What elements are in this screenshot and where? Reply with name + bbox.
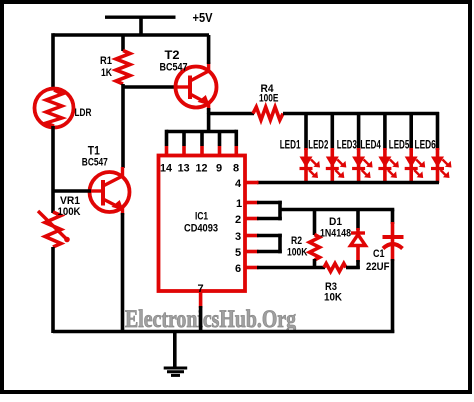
pin 9 stub — [218, 132, 222, 147]
svg-text:14: 14 — [160, 163, 173, 175]
pin 3 stub and wire — [245, 234, 259, 238]
diode D1 1N4148 — [351, 210, 366, 270]
resistor R1 — [116, 51, 130, 85]
svg-text:8: 8 — [233, 163, 239, 175]
svg-text:12: 12 — [196, 163, 208, 175]
svg-text:1N4148: 1N4148 — [320, 227, 351, 239]
svg-text:BC547: BC547 — [160, 62, 188, 74]
wire: top rail — [53, 33, 209, 37]
svg-text:100K: 100K — [58, 206, 81, 218]
svg-text:LDR: LDR — [75, 107, 92, 119]
wire: +5V stem — [139, 18, 143, 36]
LED2 — [326, 112, 347, 183]
wire: emitter junction to R4 — [207, 112, 254, 116]
IC1 CD4093 body — [159, 156, 246, 292]
pin 5 stub and wire — [245, 250, 259, 254]
svg-text:D1: D1 — [329, 216, 342, 228]
wire: pins 3-5 jog vertical — [278, 234, 282, 254]
svg-text:100E: 100E — [259, 93, 279, 105]
+5V supply bar — [105, 16, 176, 19]
ground — [164, 332, 188, 376]
wire: feedback node horizontal (pins 1-2 to C1) — [280, 208, 394, 212]
pin 6 stub and wire — [245, 266, 259, 270]
LED3 — [352, 112, 373, 183]
wire: left vertical (top rail to LDR) — [51, 33, 55, 90]
pin 14 stub — [165, 130, 169, 146]
svg-text:1K: 1K — [101, 67, 112, 79]
svg-text:4: 4 — [235, 178, 242, 190]
wire: emitter junction down to IC top bar — [207, 114, 211, 132]
resistor R2 — [310, 235, 320, 261]
svg-text:LED2: LED2 — [308, 139, 328, 151]
LED5 — [405, 112, 426, 183]
wire: R2 branch top — [313, 210, 317, 236]
capacitor C1 22UF — [383, 210, 404, 334]
svg-text:1: 1 — [236, 198, 242, 210]
pin 13 stub — [182, 132, 186, 147]
svg-text:LED1: LED1 — [280, 139, 301, 151]
LED6 — [431, 112, 452, 183]
wire: T2 emitter down to junction — [207, 108, 211, 114]
pin 1 stub and wire — [245, 201, 259, 205]
svg-text:ElectronicsHub.Org: ElectronicsHub.Org — [125, 306, 296, 333]
LED4 — [378, 112, 399, 183]
svg-text:BC547: BC547 — [82, 157, 108, 169]
wire: bottom ground rail — [53, 330, 394, 334]
wire: LED bottom rail from IC pin4 — [257, 181, 439, 185]
svg-text:6: 6 — [235, 263, 241, 275]
pin 7 stub — [199, 291, 203, 308]
pin 12 stub — [200, 132, 204, 147]
transistor T2 BC547 — [175, 62, 217, 110]
wire: pins 1-2 jog vertical — [278, 201, 282, 221]
wire: IC top bar — [167, 130, 237, 134]
svg-text:LED5: LED5 — [389, 139, 410, 151]
svg-text:T2: T2 — [165, 50, 180, 62]
variable resistor VR1 — [38, 211, 70, 247]
svg-text:IC1: IC1 — [195, 211, 208, 223]
wire: R1 bottom to T1 collector — [121, 84, 125, 168]
svg-text:R1: R1 — [100, 55, 112, 67]
wire: T1 base horizontal — [53, 189, 91, 193]
svg-text:9: 9 — [216, 163, 222, 175]
wire: R3 to D1 bottom — [346, 266, 360, 270]
svg-text:3: 3 — [235, 231, 241, 243]
svg-text:5: 5 — [235, 247, 241, 259]
svg-text:LED6: LED6 — [415, 139, 436, 151]
svg-text:LED3: LED3 — [337, 139, 357, 151]
svg-text:22UF: 22UF — [366, 261, 390, 273]
svg-text:100K: 100K — [287, 247, 308, 259]
pin 2 stub and wire — [245, 217, 259, 221]
transistor T1 BC547 — [90, 167, 130, 215]
svg-text:+5V: +5V — [193, 11, 214, 25]
wire: LED top rail — [283, 112, 439, 116]
svg-text:10K: 10K — [324, 292, 342, 304]
svg-text:13: 13 — [178, 163, 190, 175]
resistor R4 — [253, 107, 283, 120]
LED1 — [300, 112, 321, 183]
svg-text:C1: C1 — [373, 248, 385, 260]
wire: T1 emitter down to bottom rail — [121, 213, 125, 333]
pin 4 stub and wire — [245, 181, 259, 185]
wire: R1/T2 base horizontal — [123, 85, 176, 89]
wire: R2 bottom — [313, 259, 317, 268]
svg-text:LED4: LED4 — [360, 139, 381, 151]
pin 8 stub — [235, 130, 239, 146]
LDR — [35, 89, 74, 128]
wire: left vertical (VR1 to bottom rail) — [51, 247, 55, 333]
resistor R3 — [324, 264, 346, 272]
svg-text:CD4093: CD4093 — [184, 223, 218, 235]
svg-text:7: 7 — [198, 283, 204, 295]
svg-text:2: 2 — [235, 214, 241, 226]
wire: T2 collector up — [207, 35, 211, 64]
wire: left vertical (LDR to VR1) — [51, 126, 55, 213]
wire: R1 branch from top rail — [121, 35, 125, 51]
svg-text:R2: R2 — [291, 235, 302, 247]
